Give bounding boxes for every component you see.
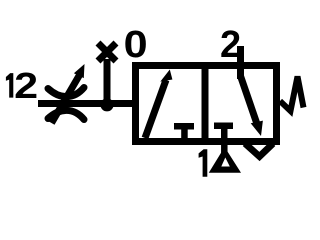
throttle adjustment arrow shaft xyxy=(52,75,80,123)
node: junction dot xyxy=(100,98,113,111)
label port 1 xyxy=(199,149,208,177)
right cell blocked port T bar xyxy=(214,123,233,130)
return spring xyxy=(280,77,304,112)
exhaust triangle at port 1 (white hole) xyxy=(221,158,230,167)
svg-text:0: 0 xyxy=(124,24,148,66)
throttle valve upper arc xyxy=(48,88,84,97)
left cell blocked port T bar xyxy=(174,123,194,130)
wire: port 2 stem xyxy=(237,46,244,79)
svg-text:2: 2 xyxy=(14,65,38,106)
throttle valve lower arc xyxy=(48,110,84,119)
right cell flow arrowhead xyxy=(251,121,263,136)
plugged port 0 (X mark) xyxy=(98,43,116,61)
valve body outline xyxy=(136,66,277,142)
left cell blocked port T stem xyxy=(181,127,188,139)
valve position divider xyxy=(202,62,209,145)
wire: branch up to plugged port 0 xyxy=(104,59,111,104)
exhaust chevron at port 3 xyxy=(245,144,273,157)
exhaust triangle at port 1 (outer) xyxy=(209,147,241,173)
left cell flow arrowhead xyxy=(160,70,172,82)
label port 12 digit 1 xyxy=(6,73,13,98)
right cell flow arrow shaft xyxy=(241,76,258,124)
left cell flow arrow shaft xyxy=(145,80,166,138)
wire: pilot line from port 12 xyxy=(38,100,135,107)
wire: port 1 stem xyxy=(221,145,228,153)
right cell blocked port T stem xyxy=(221,128,228,139)
throttle adjustment arrowhead xyxy=(74,64,85,78)
